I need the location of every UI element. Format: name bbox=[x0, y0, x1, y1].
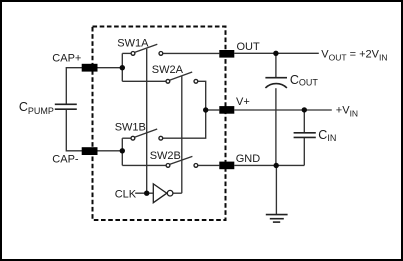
svg-text:V+: V+ bbox=[236, 96, 250, 108]
svg-text:SW1A: SW1A bbox=[117, 37, 149, 49]
svg-text:SW2B: SW2B bbox=[150, 150, 181, 162]
svg-text:CAP+: CAP+ bbox=[52, 52, 81, 64]
svg-text:GND: GND bbox=[236, 153, 261, 165]
svg-text:OUT: OUT bbox=[237, 41, 261, 53]
svg-text:CLK: CLK bbox=[115, 188, 137, 200]
svg-text:SW2A: SW2A bbox=[152, 64, 184, 76]
svg-text:SW1B: SW1B bbox=[115, 121, 146, 133]
svg-text:CAP-: CAP- bbox=[52, 153, 79, 165]
